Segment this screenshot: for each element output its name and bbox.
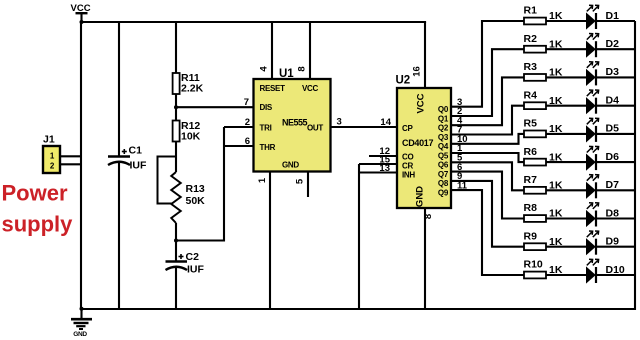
wire: top VCC bus bbox=[80, 20, 427, 24]
wire: C1 branch top (VCC bus to C1) bbox=[118, 22, 120, 156]
wire: D1 to right bus bbox=[596, 20, 635, 22]
wire: U2 Q0 (pin 3) to R1 bbox=[451, 21, 524, 108]
wire: R4 to D4 bbox=[546, 105, 587, 107]
wire: D6 to right bus bbox=[596, 161, 635, 163]
wire: U1 pin 6 THR bbox=[224, 136, 254, 147]
svg-text:3: 3 bbox=[337, 117, 342, 128]
wire: C1 bottom to ground bus bbox=[118, 163, 120, 311]
wire: R1 to D1 bbox=[546, 20, 587, 22]
svg-text:IUF: IUF bbox=[130, 160, 148, 172]
wire: D3 to right bus bbox=[596, 76, 635, 78]
wire: R2 to D2 bbox=[546, 48, 587, 50]
svg-text:Q6: Q6 bbox=[438, 161, 449, 170]
wire: R11 to R12 (DIS node) bbox=[174, 94, 178, 121]
svg-text:VCC: VCC bbox=[415, 93, 426, 113]
svg-text:Q5: Q5 bbox=[438, 151, 449, 160]
svg-text:RESET: RESET bbox=[260, 84, 286, 93]
wire: DIS node to U1 pin 7 bbox=[176, 97, 254, 108]
svg-text:7: 7 bbox=[244, 97, 249, 108]
wire: U1 pin 8 VCC to VCC bus bbox=[297, 22, 311, 79]
wire: D9 to right bus bbox=[596, 246, 635, 248]
svg-text:8: 8 bbox=[423, 214, 434, 219]
wire: U2 Q4 (pin 10) to R5 bbox=[451, 134, 524, 145]
ground symbol bbox=[71, 309, 92, 338]
svg-text:R10: R10 bbox=[524, 259, 543, 271]
svg-text:4: 4 bbox=[259, 66, 270, 72]
svg-text:IUF: IUF bbox=[187, 264, 205, 276]
svg-text:50K: 50K bbox=[186, 195, 206, 207]
resistor R10 1K bbox=[524, 259, 563, 279]
resistor R5 1K bbox=[524, 118, 563, 138]
svg-text:13: 13 bbox=[379, 163, 390, 174]
capacitor C1 polarized 1UF bbox=[108, 145, 147, 172]
svg-text:R9: R9 bbox=[524, 230, 538, 242]
wire: VCC bus to R11 bbox=[175, 22, 177, 74]
svg-text:Q9: Q9 bbox=[438, 188, 449, 197]
wire: U2 Q6 (pin 5) to R7 bbox=[451, 153, 524, 191]
LED D5 bbox=[587, 118, 620, 142]
wire: U2 Q3 (pin 7) to R4 bbox=[451, 106, 524, 136]
wire: U1 pin 3 OUT to U2 pin 14 CP bbox=[331, 117, 398, 128]
wire: U2 pin 8 GND to ground bus bbox=[423, 208, 434, 310]
wire: R7 to D7 bbox=[546, 189, 587, 191]
connector J1 bbox=[43, 134, 60, 174]
svg-text:2.2K: 2.2K bbox=[181, 83, 204, 95]
power net VCC symbol bbox=[71, 3, 91, 22]
resistor R11 2.2K bbox=[173, 72, 204, 95]
wire: U2 pin 12 CO stub bbox=[369, 146, 397, 157]
timer IC U1 NE555 bbox=[254, 68, 331, 172]
resistor R12 10K bbox=[173, 120, 201, 143]
wire: U2 Q9 (pin 11) to R10 bbox=[451, 180, 524, 275]
resistor R6 1K bbox=[524, 146, 563, 166]
resistor R7 1K bbox=[524, 174, 563, 194]
wire: TRI/THR junction down to C2 node bbox=[176, 127, 224, 241]
wire: U2 Q2 (pin 4) to R3 bbox=[451, 77, 524, 126]
resistor R9 1K bbox=[524, 230, 563, 250]
wire: U1 pin 5 CV stub bbox=[295, 172, 309, 198]
svg-text:GND: GND bbox=[415, 186, 426, 207]
svg-text:11: 11 bbox=[457, 180, 468, 191]
svg-text:R13: R13 bbox=[186, 183, 205, 195]
wire: D5 to right bus bbox=[596, 133, 635, 135]
wire: U2 Q1 (pin 2) to R2 bbox=[451, 49, 524, 117]
svg-text:R2: R2 bbox=[524, 33, 538, 45]
LED D6 bbox=[587, 146, 620, 170]
wire: R5 to D5 bbox=[546, 133, 587, 135]
potentiometer R13 50K (zigzag with wiper loop) bbox=[158, 157, 206, 224]
svg-text:INH: INH bbox=[402, 171, 415, 180]
svg-text:R7: R7 bbox=[524, 174, 538, 186]
svg-text:VCC: VCC bbox=[302, 84, 319, 93]
label: Power supply (red) bbox=[2, 181, 74, 237]
wire: J1 pin 1 to rail bbox=[61, 155, 81, 157]
svg-text:10K: 10K bbox=[181, 131, 201, 143]
svg-text:J1: J1 bbox=[43, 134, 55, 146]
svg-text:6: 6 bbox=[245, 136, 250, 147]
wire: C2 bottom to ground bus bbox=[175, 268, 177, 311]
resistor R2 1K bbox=[524, 33, 563, 53]
LED D4 bbox=[587, 90, 620, 114]
wire: U1 pin 2 TRI bbox=[224, 117, 254, 128]
svg-text:2: 2 bbox=[245, 117, 250, 128]
svg-text:NE555: NE555 bbox=[282, 118, 308, 128]
wire: R9 to D9 bbox=[546, 246, 587, 248]
resistor R4 1K bbox=[524, 89, 563, 109]
wire: U2 Q5 (pin 1) to R6 bbox=[451, 143, 524, 162]
svg-text:Q2: Q2 bbox=[438, 124, 449, 133]
wire: R10 to D10 bbox=[546, 274, 587, 276]
svg-text:Q4: Q4 bbox=[438, 142, 449, 151]
svg-text:supply: supply bbox=[2, 212, 74, 237]
wire: U1 pin 1 GND to ground bus bbox=[257, 172, 270, 311]
LED D3 bbox=[587, 62, 620, 86]
wire: right bus bbox=[634, 21, 636, 310]
svg-text:5: 5 bbox=[295, 178, 306, 184]
svg-text:U2: U2 bbox=[396, 75, 411, 87]
svg-text:R8: R8 bbox=[524, 202, 538, 214]
svg-text:R3: R3 bbox=[524, 61, 538, 73]
wire: R8 to D8 bbox=[546, 217, 587, 219]
wire: U2 pin 15 CR bbox=[359, 154, 397, 165]
capacitor C2 polarized 1UF bbox=[166, 251, 205, 276]
wire: bottom ground bus bbox=[80, 307, 636, 311]
counter IC U2 CD4017 bbox=[396, 75, 452, 209]
wire: D8 to right bus bbox=[596, 217, 635, 219]
svg-text:GND: GND bbox=[73, 331, 87, 338]
svg-text:CO: CO bbox=[402, 153, 413, 162]
LED D2 bbox=[587, 34, 620, 58]
resistor R3 1K bbox=[524, 61, 563, 81]
wire: U2 pin 16 VCC to bus bbox=[412, 22, 426, 88]
resistor R1 1K bbox=[524, 5, 563, 25]
svg-text:Q8: Q8 bbox=[438, 179, 449, 188]
svg-text:Power: Power bbox=[2, 181, 68, 206]
wire: U2 Q7 (pin 6) to R8 bbox=[451, 162, 524, 219]
svg-text:THR: THR bbox=[260, 143, 276, 152]
svg-text:CP: CP bbox=[402, 124, 413, 133]
resistor R8 1K bbox=[524, 202, 563, 222]
svg-text:14: 14 bbox=[380, 117, 391, 128]
wire: D4 to right bus bbox=[596, 105, 635, 107]
svg-text:C1: C1 bbox=[129, 145, 143, 157]
svg-text:R6: R6 bbox=[524, 146, 538, 158]
wire: R3 to D3 bbox=[546, 76, 587, 78]
wire: CR/INH to ground bus bbox=[358, 164, 360, 310]
svg-text:Q0: Q0 bbox=[438, 105, 449, 114]
svg-text:Q3: Q3 bbox=[438, 133, 449, 142]
wire: D10 to right bus bbox=[596, 274, 635, 276]
wire: R13 to C2 / TRI-THR node bbox=[174, 223, 178, 261]
wire: U2 Q8 (pin 9) to R9 bbox=[451, 171, 524, 247]
svg-text:8: 8 bbox=[297, 66, 308, 71]
svg-text:CR: CR bbox=[402, 161, 413, 170]
LED D7 bbox=[587, 175, 620, 199]
svg-text:R1: R1 bbox=[524, 5, 538, 17]
wire: D7 to right bus bbox=[596, 189, 635, 191]
wire: J1 pin 2 to rail bbox=[61, 163, 81, 165]
LED D9 bbox=[587, 231, 620, 255]
svg-text:CD4017: CD4017 bbox=[402, 138, 434, 148]
svg-text:R4: R4 bbox=[524, 89, 538, 101]
svg-text:16: 16 bbox=[412, 66, 423, 77]
LED D8 bbox=[587, 203, 620, 227]
wire: R12 to R13 bbox=[175, 142, 177, 173]
wire: D2 to right bus bbox=[596, 48, 635, 50]
svg-text:Q1: Q1 bbox=[438, 114, 449, 123]
svg-text:GND: GND bbox=[282, 161, 299, 170]
svg-text:TRI: TRI bbox=[260, 124, 272, 133]
svg-text:DIS: DIS bbox=[260, 103, 273, 112]
svg-text:OUT: OUT bbox=[307, 124, 323, 133]
svg-text:1: 1 bbox=[257, 177, 268, 183]
LED D1 bbox=[587, 5, 620, 29]
LED D10 bbox=[587, 259, 625, 283]
svg-text:R5: R5 bbox=[524, 118, 538, 130]
svg-text:Q7: Q7 bbox=[438, 170, 449, 179]
wire: left rail from VCC bus down to ground bus bbox=[80, 21, 82, 310]
svg-text:C2: C2 bbox=[186, 251, 200, 263]
wire: U1 pin 4 RESET to VCC bus bbox=[259, 22, 273, 79]
wire: R6 to D6 bbox=[546, 161, 587, 163]
wire: U2 pin 13 INH bbox=[359, 163, 397, 174]
